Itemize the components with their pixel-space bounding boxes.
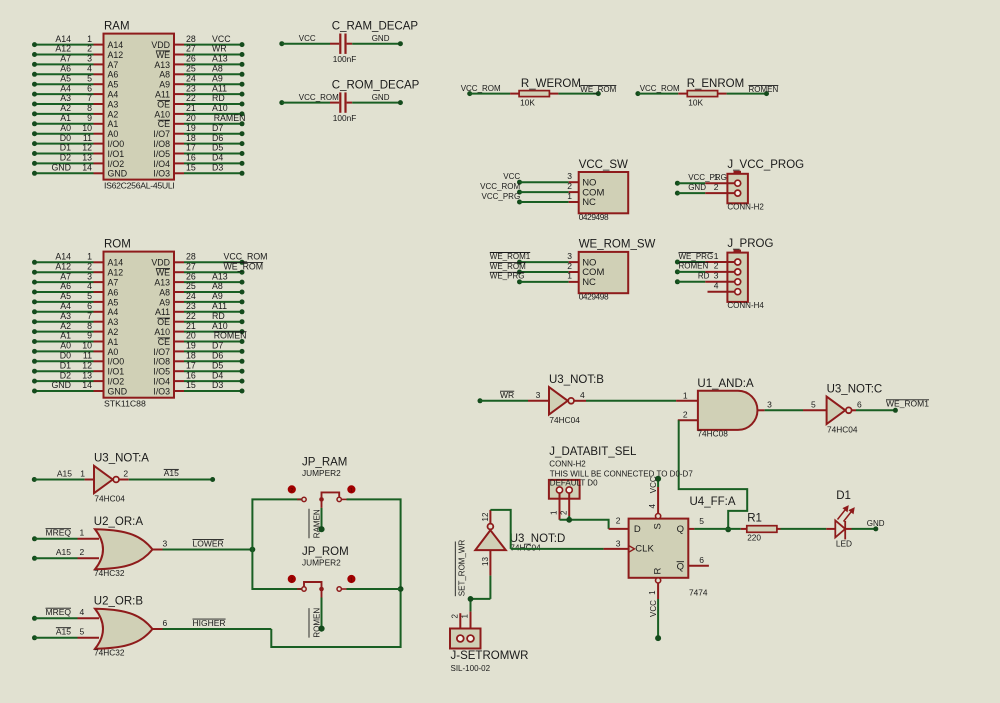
svg-text:20: 20 [186,331,196,341]
svg-text:19: 19 [186,341,196,351]
svg-text:JUMPER2: JUMPER2 [302,468,341,478]
svg-text:2: 2 [567,181,572,191]
switch VCC_SW pin 3 (NO) wire net VCC [517,180,522,185]
svg-text:CE: CE [158,337,170,347]
resistor R_WEROM body [519,91,549,97]
svg-text:5: 5 [80,627,85,637]
svg-text:A7: A7 [60,271,71,281]
svg-text:U3_NOT:B: U3_NOT:B [549,374,604,386]
svg-text:A5: A5 [108,297,119,307]
svg-text:6: 6 [87,301,92,311]
ROM pin 25 (A8) wire net A8 [174,291,184,293]
svg-text:A14: A14 [108,40,124,50]
capacitor C_ROM_DECAP plates [339,92,341,112]
svg-text:A9: A9 [159,297,170,307]
svg-text:VDD: VDD [151,40,170,50]
wire R1 to LED D1 [777,528,781,530]
svg-text:J_VCC_PROG: J_VCC_PROG [727,159,804,171]
or-gate U2_OR:A body [95,529,153,569]
svg-text:A10: A10 [212,103,228,113]
ROM pin 12 (I/O1) wire net D1 [35,370,94,372]
ROM pin 23 (A11) wire net A11 [174,311,184,313]
RAM pin 26 (A13) wire net A13 [174,63,184,65]
ROM pin 4 (A6) wire net A6 [35,291,94,293]
svg-text:10: 10 [82,123,92,133]
svg-text:4: 4 [87,64,92,74]
RAM pin 28 (VDD) wire net VCC [174,44,184,46]
resistor R_ENROM left wire net VCC_ROM [635,91,640,96]
connector J_PROG origin mark [734,250,742,253]
svg-text:WE_ROM1: WE_ROM1 [490,252,531,261]
svg-text:J_PROG: J_PROG [727,238,773,250]
svg-text:13: 13 [82,153,92,163]
svg-text:22: 22 [186,93,196,103]
svg-text:S: S [652,523,663,529]
svg-text:D7: D7 [212,123,223,133]
svg-text:WE_PRG: WE_PRG [679,252,714,261]
svg-text:3: 3 [767,399,772,409]
svg-text:74HC04: 74HC04 [510,543,541,553]
connector J_VCC_PROG pin 2 net GND [675,191,680,196]
resistor R1 body [741,528,747,530]
RAM pin 14 (GND) wire net GND [35,172,94,174]
svg-text:74HC04: 74HC04 [549,415,580,425]
ROM pin 18 (I/O8) wire net D6 [174,360,184,362]
ROM pin 14 (GND) wire net GND [35,390,94,392]
svg-text:U2_OR:B: U2_OR:B [94,596,144,608]
svg-text:D0: D0 [60,351,71,361]
svg-text:A6: A6 [108,70,119,80]
inverter U3_NOT:C body [827,397,846,424]
jumper JP_RAM link bracket [322,492,340,499]
RAM pin 4 (A6) wire net A6 [35,73,94,75]
svg-text:ROMEN: ROMEN [313,608,322,638]
or-gate U2_OR:B input 5 wire net A15 [32,635,37,640]
svg-text:I/O3: I/O3 [153,386,170,396]
svg-text:I/O4: I/O4 [153,159,170,169]
svg-text:1: 1 [80,469,85,479]
svg-text:A13: A13 [154,60,170,70]
ROM pin 15 (I/O3) wire net D3 [174,390,184,392]
svg-text:8: 8 [87,103,92,113]
ROM pin 27 (WE) wire net WE_ROM [174,271,184,273]
inverter U3_NOT:D body [475,530,506,550]
capacitor C_RAM_DECAP left wire net VCC [279,41,284,46]
and-gate U1_AND:A output pin 3 [757,409,764,411]
svg-text:A14: A14 [55,34,71,44]
svg-text:D7: D7 [212,341,223,351]
svg-text:A3: A3 [108,99,119,109]
ROM pin 3 (A7) wire net A7 [35,281,94,283]
svg-text:D5: D5 [212,360,223,370]
svg-text:1: 1 [350,488,353,494]
svg-text:D1: D1 [60,360,71,370]
LED D1 body [835,520,845,537]
svg-text:A13: A13 [154,278,170,288]
jumper JP_RAM center post [319,497,324,502]
ROM pin 11 (I/O0) wire net D0 [35,360,94,362]
or-gate U2_OR:A input 1 wire net MREQ [32,536,37,541]
RAM pin 3 (A7) wire net A7 [35,63,94,65]
svg-text:A2: A2 [108,327,119,337]
svg-text:U3_NOT:C: U3_NOT:C [827,383,883,395]
svg-text:12: 12 [82,143,92,153]
svg-text:100nF: 100nF [333,113,357,123]
svg-text:THIS WILL BE CONNECTED TO D0-D: THIS WILL BE CONNECTED TO D0-D7 [550,469,694,478]
svg-text:3: 3 [163,539,168,549]
svg-text:WE: WE [156,50,170,60]
svg-text:D5: D5 [212,143,223,153]
svg-text:2: 2 [714,261,719,271]
svg-text:1: 1 [567,271,572,281]
svg-text:D4: D4 [212,153,223,163]
capacitor C_ROM_DECAP right wire net GND [347,102,353,104]
svg-text:A3: A3 [60,311,71,321]
RAM pin 9 (A1) wire net A1 [35,123,94,125]
svg-text:A12: A12 [55,261,71,271]
svg-text:A1: A1 [108,119,119,129]
svg-text:I/O5: I/O5 [153,367,170,377]
svg-text:4: 4 [80,607,85,617]
svg-text:74HC32: 74HC32 [94,647,125,657]
svg-text:20: 20 [186,113,196,123]
svg-text:23: 23 [186,301,196,311]
svg-text:A9: A9 [212,291,223,301]
RAM pin 20 (CE) wire net RAMEN [174,123,184,125]
svg-text:I/O0: I/O0 [108,357,125,367]
or-gate U2_OR:A input 2 wire net A15 [32,556,37,561]
svg-text:0429498: 0429498 [579,212,609,222]
svg-text:1: 1 [550,510,559,515]
RAM pin 18 (I/O8) wire net D6 [174,143,184,145]
svg-text:NC: NC [582,277,596,288]
connector J_VCC_PROG body [727,174,748,204]
svg-text:5: 5 [699,516,704,526]
RAM pin 1 (A14) wire net A14 [35,44,94,46]
svg-text:A0: A0 [60,341,71,351]
RAM pin 25 (A8) wire net A8 [174,73,184,75]
ROM pin 28 (VDD) wire net VCC_ROM [174,261,184,263]
svg-text:CE: CE [158,119,170,129]
inverter U3_NOT:C bubble [846,407,852,413]
RAM pin 19 (I/O7) wire net D7 [174,133,184,135]
svg-text:A7: A7 [60,54,71,64]
jumper JP_RAM right contact [337,497,341,501]
svg-text:A0: A0 [108,347,119,357]
inverter U3_NOT:B body [549,387,568,414]
svg-text:SIL-100-02: SIL-100-02 [451,664,491,673]
inverter U3_NOT:B input wire net WR [478,398,483,403]
svg-text:I/O1: I/O1 [108,149,125,159]
svg-text:5: 5 [87,291,92,301]
wire JP_ROM right pin [347,588,401,590]
svg-text:9: 9 [87,331,92,341]
switch VCC_SW pin 1 (NC) wire net VCC_PRG [517,200,522,205]
svg-text:ROM: ROM [104,239,131,251]
svg-text:VCC: VCC [649,600,658,617]
svg-text:RAMEN: RAMEN [214,113,246,123]
wire net SET_ROM_WR down to J-SETROMWR [471,599,491,612]
or-gate U2_OR:B body [95,609,153,649]
capacitor C_RAM_DECAP right wire net GND [347,43,353,45]
RAM pin 2 (A12) wire net A12 [35,54,94,56]
jumper JP_RAM left contact [297,498,301,500]
svg-text:26: 26 [186,54,196,64]
svg-text:5: 5 [811,399,816,409]
svg-text:GND: GND [51,163,71,173]
svg-text:WE_PRG: WE_PRG [490,272,525,281]
svg-text:GND: GND [108,169,128,179]
connector J-SETROMWR body [450,629,481,649]
connector J_PROG body [727,253,748,302]
svg-text:A12: A12 [108,268,124,278]
svg-text:D1: D1 [836,490,851,502]
svg-text:25: 25 [186,64,196,74]
svg-text:4: 4 [87,281,92,291]
capacitor C_ROM_DECAP left wire net VCC_ROM [279,100,284,105]
LED D1 arrows [838,506,854,521]
svg-text:VCC: VCC [649,476,658,493]
svg-text:I/O7: I/O7 [153,347,170,357]
svg-text:28: 28 [186,252,196,262]
inverter U3_NOT:C input pin 5 [803,409,827,411]
svg-text:I/O4: I/O4 [153,377,170,387]
svg-text:A2: A2 [60,321,71,331]
svg-text:A8: A8 [212,64,223,74]
svg-text:21: 21 [186,103,196,113]
svg-text:A10: A10 [154,327,170,337]
connector J_VCC_PROG pin 1 net VCC_PRG [675,181,680,186]
svg-text:A9: A9 [212,73,223,83]
jumper JP_ROM common wire net ROMEN [321,589,323,598]
svg-text:17: 17 [186,143,196,153]
svg-text:19: 19 [186,123,196,133]
svg-text:U3_NOT:A: U3_NOT:A [94,453,149,465]
ROM pin 21 (A10) wire net A10 [174,331,184,333]
svg-text:74HC04: 74HC04 [94,494,125,504]
svg-text:A8: A8 [159,287,170,297]
svg-text:GND: GND [108,386,128,396]
svg-text:3: 3 [567,251,572,261]
svg-text:U4_FF:A: U4_FF:A [690,496,736,508]
svg-text:23: 23 [186,83,196,93]
jumper JP_ROM link bracket [304,582,322,589]
svg-text:A4: A4 [108,307,119,317]
wire to U4_FF:A CLK [511,548,604,550]
svg-text:LED: LED [836,539,852,549]
ROM pin 7 (A3) wire net A3 [35,321,94,323]
svg-text:24: 24 [186,73,196,83]
connector J_DATABIT_SEL pin 2 [568,492,570,516]
ROM pin 6 (A4) wire net A4 [35,311,94,313]
svg-text:3: 3 [714,271,719,281]
svg-text:VCC_ROM: VCC_ROM [224,252,268,262]
svg-text:A15: A15 [56,547,71,557]
svg-text:GND: GND [867,519,885,528]
svg-text:18: 18 [186,351,196,361]
svg-text:VCC: VCC [212,34,231,44]
svg-text:A10: A10 [154,109,170,119]
inverter U3_NOT:B output wire to U1_AND:A pin 1 [574,400,586,402]
resistor R_ENROM right wire net ROMEN [718,93,727,95]
jumper JP_ROM pin heads [288,575,296,583]
wire LED to GND [845,528,851,530]
svg-text:C_RAM_DECAP: C_RAM_DECAP [332,20,419,32]
svg-text:27: 27 [186,261,196,271]
svg-text:A5: A5 [108,80,119,90]
svg-text:A14: A14 [55,252,71,262]
svg-text:IS62C256AL-45ULI: IS62C256AL-45ULI [104,180,175,190]
svg-text:I/O7: I/O7 [153,129,170,139]
svg-text:U1_AND:A: U1_AND:A [697,378,754,390]
svg-text:1: 1 [714,251,719,261]
svg-text:A11: A11 [212,301,227,311]
svg-text:CONN-H2: CONN-H2 [549,460,586,469]
svg-text:DEFAULT D0: DEFAULT D0 [550,478,598,487]
svg-text:2: 2 [559,510,568,515]
svg-text:11: 11 [83,133,92,143]
svg-text:J-SETROMWR: J-SETROMWR [451,650,529,662]
svg-text:2: 2 [714,182,719,192]
svg-text:OE: OE [157,99,170,109]
ROM pin 17 (I/O5) wire net D5 [174,370,184,372]
inverter U3_NOT:D input pin 13 [489,550,491,576]
wire JP_RAM right to JP_ROM right vertical [347,499,401,589]
svg-text:6: 6 [699,555,704,565]
svg-text:A5: A5 [60,291,71,301]
svg-text:ROMEN: ROMEN [214,331,247,341]
jumper JP_ROM left contact [297,588,301,590]
wire U1_AND:A pin2 from U4_FF:A Q output [679,420,748,529]
svg-text:1: 1 [648,590,657,595]
ROM pin 13 (I/O2) wire net D2 [35,380,94,382]
svg-text:VCC_ROM: VCC_ROM [299,93,339,102]
connector J_DATABIT_SEL body [549,480,580,499]
svg-text:CONN-H2: CONN-H2 [727,203,764,212]
switch WE_ROM_SW body [579,252,629,293]
svg-text:100nF: 100nF [333,54,357,64]
svg-text:25: 25 [186,281,196,291]
inverter U3_NOT:D bubble [488,524,494,530]
svg-text:2: 2 [80,547,85,557]
connector J_PROG pin 1 net WE_PRG [675,260,680,265]
svg-text:VCC: VCC [299,34,316,43]
svg-text:ROMEN: ROMEN [749,85,779,94]
svg-text:J_DATABIT_SEL: J_DATABIT_SEL [549,446,637,458]
RAM pin 23 (A11) wire net A11 [174,93,184,95]
ROM pin 1 (A14) wire net A14 [35,261,94,263]
svg-text:I/O5: I/O5 [153,149,170,159]
svg-text:VCC_ROM: VCC_ROM [480,182,520,191]
svg-text:2: 2 [87,44,92,54]
or-gate U2_OR:A output wire net LOWER [153,549,163,551]
svg-text:74HC32: 74HC32 [94,568,125,578]
svg-text:VCC_SW: VCC_SW [579,159,628,171]
svg-text:WE_ROM_SW: WE_ROM_SW [579,239,656,251]
svg-text:A4: A4 [108,90,119,100]
svg-text:R1: R1 [747,512,762,524]
svg-text:R_ENROM: R_ENROM [687,78,745,90]
or-gate U2_OR:B input 4 wire net MREQ [32,616,37,621]
svg-text:74HC04: 74HC04 [827,424,858,434]
svg-text:2: 2 [290,578,293,584]
svg-text:14: 14 [82,163,92,173]
svg-text:GND: GND [51,380,71,390]
svg-text:A12: A12 [108,50,124,60]
ROM pin 24 (A9) wire net A9 [174,301,184,303]
svg-text:VCC_ROM: VCC_ROM [640,84,680,93]
svg-text:A0: A0 [108,129,119,139]
svg-text:A4: A4 [60,301,71,311]
svg-text:U2_OR:A: U2_OR:A [94,516,144,528]
svg-text:A12: A12 [55,44,71,54]
svg-text:2: 2 [450,614,459,619]
svg-text:12: 12 [82,360,92,370]
connector J_PROG pin 2 net ROMEN [675,269,680,274]
connector J_DATABIT_SEL pin 1 [559,492,561,519]
svg-text:A11: A11 [155,90,170,100]
svg-text:3: 3 [616,538,621,548]
svg-text:D3: D3 [212,163,223,173]
svg-text:WE_ROM: WE_ROM [224,261,264,271]
ROM pin 10 (A0) wire net A0 [35,350,94,352]
svg-text:6: 6 [163,618,168,628]
svg-text:10K: 10K [520,97,535,107]
svg-text:D6: D6 [212,133,223,143]
svg-text:A15: A15 [57,469,72,479]
svg-text:74HC08: 74HC08 [697,428,728,438]
svg-text:A2: A2 [60,103,71,113]
svg-text:WE_ROM: WE_ROM [580,85,616,94]
connector J_VCC_PROG origin mark [734,171,742,174]
svg-text:7: 7 [87,311,92,321]
wire LOWER junction to jumpers [250,547,256,553]
svg-text:11: 11 [83,351,92,361]
svg-text:9: 9 [87,113,92,123]
jumper JP_ROM right contact [337,587,341,591]
svg-text:2: 2 [290,488,293,494]
svg-text:15: 15 [186,380,196,390]
svg-text:A5: A5 [60,73,71,83]
svg-text:OE: OE [157,317,170,327]
wire HIGHER loop to jumper common [271,589,400,647]
svg-text:16: 16 [186,370,196,380]
inverter U3_NOT:A input wire net A15 [32,477,37,482]
inverter U3_NOT:A output wire net A15bar [119,479,128,481]
svg-text:I/O1: I/O1 [108,367,125,377]
RAM pin 15 (I/O3) wire net D3 [174,172,184,174]
svg-text:I/O8: I/O8 [153,357,170,367]
svg-text:C_ROM_DECAP: C_ROM_DECAP [332,80,420,92]
svg-text:A8: A8 [212,281,223,291]
svg-text:CLK: CLK [635,544,654,555]
RAM pin 17 (I/O5) wire net D5 [174,153,184,155]
svg-text:GND: GND [688,183,706,192]
svg-text:1: 1 [461,614,470,619]
svg-text:3: 3 [87,54,92,64]
svg-text:2: 2 [567,261,572,271]
svg-text:RD: RD [212,311,225,321]
svg-text:16: 16 [186,153,196,163]
svg-text:VDD: VDD [151,258,170,268]
flip-flop U4_FF:A body [629,519,689,578]
svg-text:17: 17 [186,360,196,370]
svg-text:D: D [634,524,641,535]
svg-text:A6: A6 [108,287,119,297]
svg-text:I/O2: I/O2 [108,377,125,387]
ROM pin 20 (CE) wire net ROMEN [174,341,184,343]
svg-text:15: 15 [186,163,196,173]
